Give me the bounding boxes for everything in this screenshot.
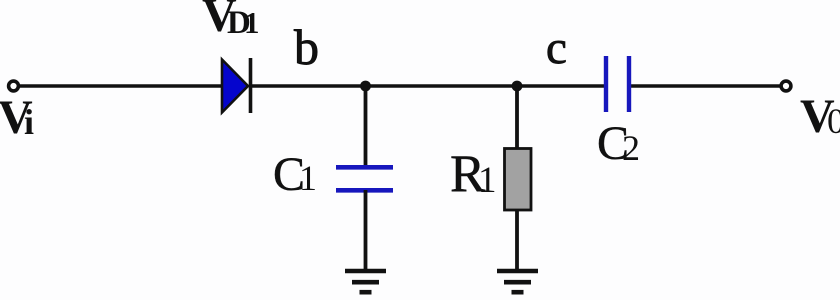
wire C1 to ground: [364, 190, 368, 271]
svg-text:1: 1: [478, 160, 497, 201]
wire b-c segment: [251, 84, 605, 88]
node c: [512, 81, 523, 92]
ground under C1: [345, 269, 386, 274]
wire b down to C1: [364, 86, 368, 167]
svg-text:0: 0: [827, 101, 840, 141]
output terminal: [781, 81, 791, 91]
svg-text:2: 2: [622, 128, 640, 168]
svg-text:b: b: [294, 19, 319, 75]
wire R1 to ground: [515, 210, 519, 271]
ground under R1: [497, 269, 538, 274]
capacitor C1: [336, 165, 393, 170]
input terminal: [9, 81, 19, 91]
wire c down to R1: [515, 86, 519, 149]
svg-text:c: c: [546, 22, 567, 74]
svg-text:1: 1: [244, 5, 260, 40]
svg-text:i: i: [24, 102, 34, 142]
diode VD1: [222, 60, 248, 113]
resistor R1: [505, 149, 532, 211]
wire input segment: [19, 84, 222, 88]
capacitor C2: [604, 56, 608, 112]
wire output segment: [630, 84, 782, 88]
node b: [360, 81, 371, 92]
svg-text:1: 1: [299, 158, 317, 198]
